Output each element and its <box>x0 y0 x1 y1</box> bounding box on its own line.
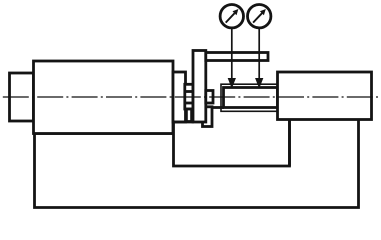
hub to shaft lower line <box>212 106 224 109</box>
indicator bracket bar <box>206 53 268 61</box>
flange lower boss <box>203 107 213 127</box>
coupling hub <box>206 91 213 104</box>
dial indicator gauge left <box>220 5 243 28</box>
left machine body <box>34 61 174 134</box>
left indicator stem <box>231 28 233 80</box>
stub lower block <box>186 109 191 122</box>
shaft line upper in box <box>185 90 193 93</box>
bed top line <box>34 132 175 135</box>
leg of right machine <box>288 120 291 167</box>
right machine body <box>278 72 372 120</box>
support platform <box>174 120 290 167</box>
coupling flange <box>193 51 206 123</box>
shaft bearing box <box>185 84 193 109</box>
right indicator stem <box>258 28 260 80</box>
shaft sleeve thin outline <box>221 84 278 111</box>
left machine left end section <box>10 73 34 121</box>
left machine nose section <box>173 72 186 122</box>
base plate outline <box>35 120 359 208</box>
shaft line lower in box <box>185 102 193 105</box>
left stem arrow <box>229 79 235 87</box>
measured shaft <box>224 88 278 108</box>
dial indicator gauge right <box>248 5 271 28</box>
shaft centerline <box>3 96 379 98</box>
nose bottom line <box>173 121 194 124</box>
right stem arrow <box>256 79 262 87</box>
